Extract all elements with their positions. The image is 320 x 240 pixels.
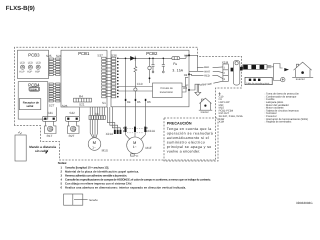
- connector S27: [49, 83, 53, 85]
- thermistor R1T: [45, 126, 57, 134]
- signal waves: [18, 132, 22, 135]
- svg-text:FLXS-B(9): FLXS-B(9): [6, 5, 35, 12]
- cable fork: [271, 64, 282, 81]
- wire PCB1 to S31: [56, 107, 58, 116]
- svg-text:Cable de conexión y tierra: Cable de conexión y tierra: [246, 82, 270, 85]
- wires X11A to M1F: [126, 132, 146, 140]
- svg-text:3. 15A: 3. 15A: [172, 68, 183, 72]
- svg-text:operación se reanudará: operación se reanudará: [167, 131, 213, 135]
- terminal H4: [125, 99, 127, 101]
- svg-text:señal: señal: [26, 104, 33, 108]
- relay coil branch: [149, 58, 151, 83]
- svg-text:RED: RED: [204, 75, 210, 78]
- svg-text:LED: LED: [20, 61, 25, 64]
- field earth arrow: [195, 84, 201, 95]
- svg-text:Tamaño: Tamaño: [89, 199, 99, 202]
- svg-text:S1: S1: [102, 101, 106, 105]
- swing motor M1S: [88, 138, 101, 151]
- nameplate size diagram: [64, 194, 83, 205]
- wires S37-S36: [106, 58, 112, 96]
- svg-text:LED: LED: [36, 61, 41, 64]
- wires S27-S26: [53, 84, 55, 101]
- svg-text:°C: °C: [135, 155, 138, 158]
- svg-text:: Regleta de terminales: : Regleta de terminales: [265, 121, 292, 124]
- svg-text:M: M: [93, 140, 96, 145]
- signal arrow: [45, 149, 49, 153]
- svg-text:Tenga en cuenta que la: Tenga en cuenta que la: [167, 127, 212, 131]
- legend earth symbol: [219, 92, 221, 95]
- svg-text:H3P: H3P: [35, 70, 40, 73]
- terminal H5: [135, 99, 137, 101]
- svg-text:X11A: X11A: [148, 129, 156, 133]
- svg-text:H4: H4: [127, 100, 131, 104]
- capacitor C10: [134, 88, 137, 91]
- svg-text:1~: 1~: [92, 146, 96, 150]
- wire RED: [189, 74, 223, 78]
- cable spec box: [245, 77, 272, 84]
- svg-text:X1M: X1M: [219, 121, 224, 124]
- earth terminal circle: [281, 77, 285, 81]
- svg-text:automáticamente si el: automáticamente si el: [167, 136, 209, 140]
- svg-text:PRECAUCIÓN: PRECAUCIÓN: [167, 120, 192, 125]
- outdoor house icon: [292, 62, 313, 77]
- operation switch S1W: [29, 87, 40, 91]
- terminal H2: [188, 74, 190, 76]
- wires PCB1 to X21A: [107, 107, 120, 130]
- svg-text:principal se apaga y se: principal se apaga y se: [167, 145, 212, 149]
- thermal protector: [131, 154, 135, 156]
- svg-text:S32: S32: [69, 111, 75, 115]
- wire BLK: [190, 55, 223, 71]
- svg-text:Circuito de: Circuito de: [160, 87, 173, 90]
- cable grommet: [233, 60, 239, 85]
- arrow to outdoor: [284, 68, 289, 71]
- svg-text:Interior: Interior: [201, 111, 209, 114]
- capacitor C3: [162, 58, 165, 71]
- PCB2: [111, 50, 189, 107]
- wires S6 to M1S: [90, 120, 97, 138]
- svg-text:WHT: WHT: [204, 70, 210, 73]
- terminal H6: [145, 99, 147, 101]
- wires S36 to transmission box: [118, 87, 153, 92]
- svg-text:H2P: H2P: [27, 70, 32, 73]
- svg-text:M1F: M1F: [146, 146, 152, 150]
- svg-text:H5: H5: [137, 100, 141, 104]
- svg-text:H2: H2: [184, 73, 188, 77]
- terminal H1: [188, 55, 190, 57]
- unit dashed outline: [15, 47, 242, 160]
- wire vertical to H4: [125, 58, 127, 99]
- svg-text:Exterior: Exterior: [296, 78, 305, 81]
- svg-text:X21A: X21A: [106, 132, 115, 136]
- svg-text:LED: LED: [28, 61, 33, 64]
- diode D1: [130, 56, 135, 61]
- svg-text:PCB1: PCB1: [78, 51, 90, 56]
- svg-text:S31: S31: [47, 111, 53, 115]
- interconnection cable: [243, 65, 267, 70]
- svg-text:BLK: BLK: [204, 66, 209, 69]
- caution box: [164, 118, 218, 161]
- svg-text:1~: 1~: [133, 145, 137, 149]
- wireless remote controller: [15, 135, 26, 161]
- svg-text:S37: S37: [97, 53, 103, 57]
- svg-text:vuelve a encender.: vuelve a encender.: [167, 149, 201, 153]
- PCB4: [18, 82, 48, 119]
- legend: [219, 92, 309, 123]
- svg-text:Realice una abertura en dimens: Realice una abertura en dimensiones: int…: [65, 185, 186, 189]
- svg-text:S27: S27: [49, 103, 55, 107]
- svg-text:C10: C10: [137, 82, 143, 86]
- fan motor M1F: [127, 137, 144, 154]
- svg-text:H3: H3: [183, 86, 187, 90]
- transmission circuit box: [153, 83, 183, 98]
- svg-text:H1P: H1P: [19, 70, 24, 73]
- svg-text:PCB3: PCB3: [28, 52, 40, 57]
- wire box to H2: [182, 77, 188, 86]
- svg-text:S21: S21: [79, 103, 85, 107]
- svg-text:H6: H6: [147, 100, 151, 104]
- svg-text:transmisión: transmisión: [160, 91, 174, 94]
- wire box to H3: [182, 85, 188, 92]
- svg-text:PCB2: PCB2: [146, 51, 158, 56]
- wires S31 to R1T: [45, 121, 53, 126]
- svg-text:R1T: R1T: [47, 134, 53, 138]
- svg-text:M1S: M1S: [102, 148, 108, 152]
- wires S32 to R2T: [68, 121, 76, 126]
- cable tail: [267, 66, 271, 68]
- fuse Fu 3.15A: [172, 57, 180, 60]
- wires S25-S24: [53, 59, 55, 75]
- wire WHT: [189, 71, 223, 72]
- PCB1: [61, 50, 107, 107]
- wires PCB2 to X11A: [126, 101, 146, 127]
- svg-text:S1W: S1W: [31, 88, 37, 91]
- wires PCB1 to S6: [90, 107, 104, 116]
- connector S26: [56, 83, 60, 85]
- capacitor C2: [152, 58, 155, 71]
- signal receiver box: [19, 99, 41, 110]
- svg-text:S25: S25: [46, 54, 52, 58]
- resistor on C10 branch: [134, 58, 136, 99]
- wire top rail PCB2: [118, 55, 189, 58]
- svg-text:S36: S36: [111, 53, 117, 57]
- S36 junction dots: [117, 58, 119, 98]
- terminal H3: [188, 89, 190, 91]
- svg-text:H1: H1: [184, 53, 188, 57]
- PCB3: [18, 50, 49, 78]
- X1M wire lugs: [231, 68, 234, 72]
- svg-text:suministro eléctrico: suministro eléctrico: [167, 140, 205, 144]
- indoor house icon: [199, 98, 212, 110]
- wire PCB1 to S32: [79, 107, 81, 116]
- thermistor R2T: [68, 126, 80, 134]
- svg-text:3D033003G: 3D033003G: [296, 201, 313, 205]
- svg-text:Fu: Fu: [173, 62, 177, 66]
- svg-text:R2T: R2T: [69, 134, 75, 138]
- wire GRN/YLW: [189, 81, 223, 90]
